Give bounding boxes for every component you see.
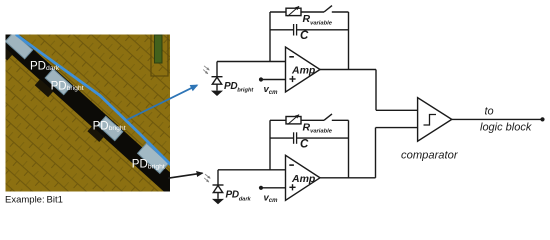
wire non-inverting input (bottom amp) <box>261 187 286 189</box>
contact blocks below band <box>0 43 13 60</box>
svg-text:C: C <box>300 30 309 42</box>
photodiode PD_bright symbol <box>216 62 218 78</box>
capacitor C (bottom) plates <box>293 132 295 144</box>
PD cell 4 <box>138 143 169 173</box>
hysteresis symbol <box>424 115 437 126</box>
chip micrograph photo <box>0 19 188 204</box>
op-amp U1 Amp (top) <box>286 47 321 92</box>
label plus (bottom amp) <box>289 186 295 188</box>
wire top feedback right vertical <box>348 12 350 70</box>
svg-text:C: C <box>300 138 309 150</box>
label plus (top amp) <box>289 78 295 80</box>
wire capacitor branch <box>270 29 294 31</box>
ground (bottom PD) <box>212 199 224 204</box>
diagonal photodiode row band <box>0 19 188 204</box>
wire comparator output <box>452 118 542 120</box>
switch S1 blade <box>324 6 332 12</box>
blue metal trace line <box>16 35 171 166</box>
svg-text:vcm: vcm <box>264 84 279 96</box>
black pointer arrow from photo to PD_dark <box>168 173 203 178</box>
PD cell 1 <box>5 32 32 58</box>
capacitor C (top) plates <box>293 24 295 36</box>
wire inverting input (top amp) <box>217 61 286 63</box>
svg-text:Amp: Amp <box>291 65 316 77</box>
svg-text:PDbright: PDbright <box>224 81 254 94</box>
PD cell 2 <box>45 69 72 95</box>
wire non-inverting input (top amp) <box>261 79 286 81</box>
wire resistor branch top <box>270 11 324 13</box>
PD cell 3 <box>98 116 123 140</box>
blue pointer arrow from photo to PD_bright <box>127 85 197 120</box>
green test structure bar <box>155 35 163 63</box>
photodiode PD_dark symbol <box>217 170 219 186</box>
wire bottom feedback right vertical <box>348 120 350 178</box>
comparator U3 <box>418 98 452 142</box>
wire inverting input (bottom amp) <box>218 169 286 171</box>
wire bottom feedback left vertical <box>269 120 271 170</box>
wire resistor branch bottom <box>270 119 324 121</box>
wire top amp output <box>320 69 376 71</box>
label minus (bottom amp) <box>289 164 294 166</box>
wire bottom amp output <box>320 177 376 179</box>
light arrows into PD_bright <box>204 66 209 70</box>
wire top feedback left vertical <box>269 12 271 62</box>
svg-text:Amp: Amp <box>291 173 316 185</box>
svg-text:Rvariable: Rvariable <box>303 13 333 26</box>
ground (top PD) <box>211 91 223 96</box>
switch S2 blade <box>324 114 332 120</box>
op-amp U2 Amp (bottom) <box>286 155 321 200</box>
test structure outline top right <box>151 33 168 76</box>
node v_cm terminal (top) <box>259 77 263 81</box>
svg-text:comparator: comparator <box>401 149 459 161</box>
svg-text:vcm: vcm <box>264 192 279 204</box>
svg-text:Example:: Example: <box>5 195 45 206</box>
wire capacitor branch bottom <box>270 137 294 139</box>
svg-text:to: to <box>485 106 494 118</box>
node v_cm terminal (bottom) <box>259 186 263 190</box>
label minus (top amp) <box>289 56 294 58</box>
node output terminal <box>540 117 544 121</box>
svg-text:PDdark: PDdark <box>226 190 252 203</box>
light arrows into PD_dark <box>205 174 210 178</box>
svg-text:Bit1: Bit1 <box>47 195 63 206</box>
svg-text:Rvariable: Rvariable <box>303 121 333 134</box>
resistor R_variable (bottom) <box>286 117 301 124</box>
svg-text:logic block: logic block <box>480 122 532 134</box>
resistor R_variable (top) <box>286 8 301 15</box>
